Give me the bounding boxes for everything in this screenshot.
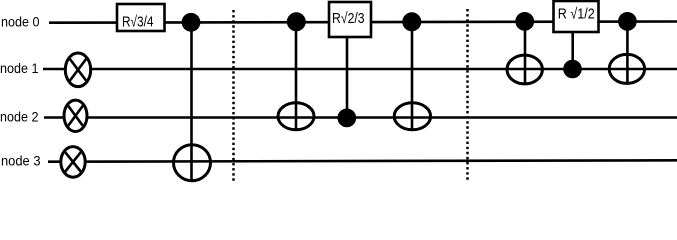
svg-text:node 3: node 3 bbox=[1, 154, 41, 169]
svg-text:R√2/3: R√2/3 bbox=[332, 10, 365, 27]
CNOT control 0 / target 2 : connector wire bbox=[411, 22, 414, 130]
CNOT control 0 / target 1 : connector wire bbox=[626, 21, 629, 83]
svg-text:node 1: node 1 bbox=[0, 61, 39, 76]
CNOT target (XOR) on node 1 bbox=[507, 55, 542, 84]
barrier 2 (dotted) bbox=[466, 9, 469, 182]
gate box R sqrt(2/3) on node 0 bbox=[329, 2, 371, 37]
wire node 3 bbox=[48, 160, 677, 161]
control dot on node 2 bbox=[337, 109, 356, 128]
svg-text:node 0: node 0 bbox=[1, 15, 40, 30]
control dot on node 0 bbox=[515, 12, 534, 31]
controlled-R sqrt(2/3) connector wire bbox=[346, 37, 349, 118]
wire node 1 bbox=[43, 68, 677, 71]
wire node 0 bbox=[49, 22, 677, 23]
barrier 1 (dotted) bbox=[232, 10, 235, 182]
svg-text:R√3/4: R√3/4 bbox=[122, 13, 154, 30]
svg-text:node 2: node 2 bbox=[0, 110, 39, 125]
control dot on node 0 bbox=[618, 12, 637, 31]
X gate on node 3 bbox=[61, 147, 85, 178]
X gate on node 2 bbox=[64, 100, 87, 131]
control dot on node 0 bbox=[402, 12, 421, 31]
control dot on node 0 bbox=[182, 13, 201, 32]
control dot on node 0 bbox=[287, 12, 306, 31]
gate box R sqrt(1/2) on node 0 bbox=[554, 1, 599, 32]
gate box R sqrt(3/4) on node 0 bbox=[117, 4, 165, 31]
CNOT control 0 / target 2 : connector wire bbox=[295, 22, 298, 130]
X gate on node 1 bbox=[65, 53, 90, 87]
CNOT target (XOR) on node 3 bbox=[174, 145, 211, 181]
CNOT target (XOR) on node 1 bbox=[609, 54, 644, 83]
control dot on node 1 bbox=[563, 60, 582, 79]
wire node 2 bbox=[44, 116, 677, 119]
CNOT target (XOR) on node 2 bbox=[278, 103, 314, 130]
CNOT target (XOR) on node 2 bbox=[394, 103, 430, 130]
controlled-R sqrt(1/2) connector wire bbox=[571, 32, 574, 69]
svg-text:R √1/2: R √1/2 bbox=[558, 6, 595, 23]
CNOT control 0 / target 3 : connector wire bbox=[190, 23, 193, 181]
CNOT control 0 / target 1 : connector wire bbox=[524, 21, 527, 84]
